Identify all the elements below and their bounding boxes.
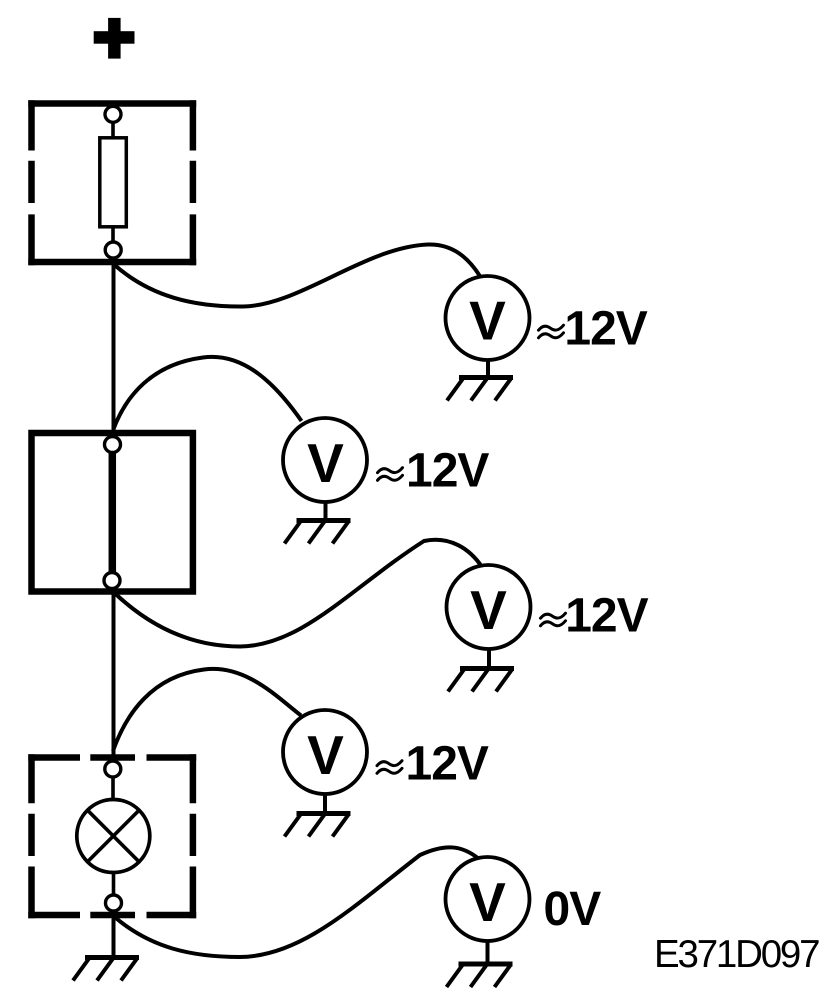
lamp L1	[77, 761, 150, 911]
voltmeter V3	[447, 565, 531, 649]
switch terminal top	[105, 437, 121, 453]
svg-text:V: V	[307, 432, 344, 494]
voltmeter V2	[283, 418, 367, 502]
ground under V1	[447, 378, 513, 401]
ground under V5	[447, 964, 513, 987]
svg-text:V: V	[470, 579, 507, 641]
wire curve node D to voltmeter V4	[113, 669, 301, 751]
label V3 value	[541, 613, 566, 626]
label V4 value	[377, 761, 402, 774]
svg-text:0V: 0V	[544, 883, 602, 936]
voltmeter V2 stem	[324, 501, 328, 520]
ground under V4	[285, 814, 351, 837]
voltmeter V1 stem	[486, 360, 490, 377]
battery positive terminal +	[94, 18, 135, 59]
fuse F1	[100, 106, 127, 258]
svg-text:V: V	[307, 724, 344, 786]
voltmeter V4 stem	[323, 793, 327, 813]
switch/connector box (solid outline)	[32, 433, 193, 592]
svg-text:12V: 12V	[406, 738, 489, 791]
wire curve node A to voltmeter V1	[114, 244, 481, 306]
wire main vertical segment box1 to box2	[112, 262, 116, 433]
wire main vertical segment box2 to box3	[112, 588, 116, 759]
fuse box (dashed outline)	[28, 100, 196, 265]
wire curve node B to voltmeter V2	[114, 357, 302, 429]
wire main vertical segment box3 to ground	[112, 912, 116, 957]
svg-text:V: V	[469, 871, 506, 933]
switch terminal bottom	[104, 573, 120, 589]
ground under V2	[285, 521, 351, 544]
label V1 value	[539, 325, 564, 338]
wire curve node C to voltmeter V3	[114, 540, 483, 647]
svg-text:12V: 12V	[406, 445, 489, 498]
svg-text:V: V	[469, 290, 506, 352]
voltmeter V1	[446, 276, 530, 360]
voltmeter V5	[446, 857, 530, 941]
ground under V3	[448, 669, 514, 692]
voltmeter V5 stem	[486, 940, 490, 964]
wire curve node E to voltmeter V5	[114, 847, 480, 957]
svg-text:12V: 12V	[564, 303, 647, 356]
ground (main, below lamp box)	[73, 958, 139, 981]
switch internal conductor	[109, 450, 117, 575]
voltmeter V3 stem	[487, 648, 491, 668]
voltmeter V4	[283, 710, 367, 794]
label V2 value	[378, 468, 403, 481]
svg-text:12V: 12V	[565, 590, 648, 643]
lamp box (dashed outline)	[28, 754, 196, 918]
svg-text:E371D097: E371D097	[654, 933, 819, 976]
